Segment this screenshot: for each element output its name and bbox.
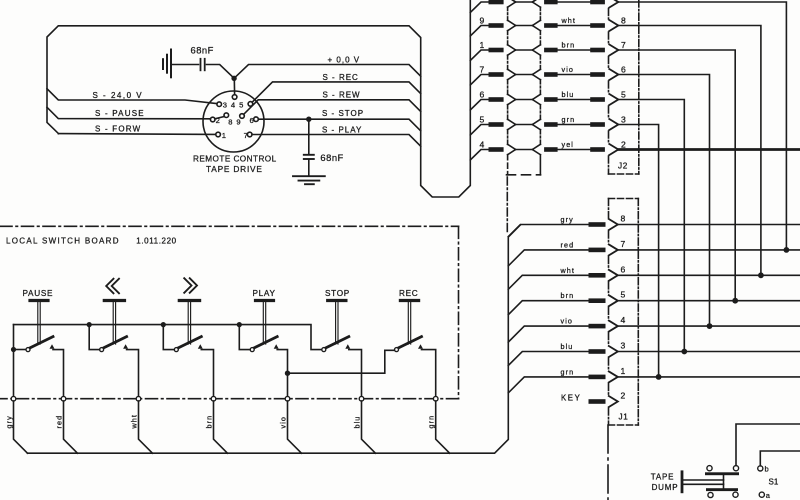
svg-text:grn: grn [561,367,575,376]
pin lug [590,122,605,127]
J2 row wht: stub from bundle [470,26,488,37]
wire yel (thick) to edge [618,148,800,151]
wire S-REC [252,82,421,102]
svg-text:4: 4 [621,315,626,325]
twisted pair crossover [516,25,533,27]
pin lug [590,48,605,53]
svg-text:S - STOP: S - STOP [322,109,364,118]
pin lug [489,48,504,53]
connector socket chevron [609,396,618,407]
wire bus to pivot 3 [163,325,174,350]
wire J2 pin to vertical feeder [618,75,709,327]
pin lug [590,0,605,4]
connector socket chevron [609,144,618,155]
switch REC: button bar [400,299,418,302]
wire contact elbow down [422,350,436,397]
feedthrough red [61,396,66,401]
connector J1 boundary bottom [609,424,639,426]
wire J1 grn to edge [618,376,800,378]
pivot contact [395,348,399,352]
svg-text:5: 5 [480,115,485,125]
feedthrough grn [433,396,438,401]
node junction [681,349,687,355]
connector socket chevron [609,321,618,332]
connector socket chevron [609,94,618,105]
fast forward symbol >> [184,278,197,293]
wire J2 pin to vertical feeder [618,26,761,276]
pin 1 [216,132,221,137]
twisted pair lens chain [508,0,541,144]
pin 7 [247,132,252,137]
J1 row gry: stub from bundle [508,225,588,237]
switch lever [104,337,127,348]
wire S-FORW [58,133,215,136]
pin lug [544,122,558,127]
connector socket chevron [609,119,618,130]
wire pin8 to pin2 wire [215,117,225,119]
board boundary bottom edge with feedthroughs [0,398,459,400]
wire J1 blu to edge [618,351,800,353]
svg-text:vio: vio [562,65,575,74]
node junction [707,323,713,329]
pin lug [589,248,606,253]
feedthrough gry [11,396,16,401]
pin 8 [224,113,229,118]
wire vio down to bundle [288,401,302,453]
wire S-STOP [258,119,420,131]
wire contact elbow down [349,350,362,397]
contact arrow [123,344,128,349]
wire J1 wht to edge [618,274,800,276]
wire lug to lug [558,74,591,76]
connector socket chevron [609,0,618,8]
svg-text:vio: vio [278,416,287,429]
node junction [732,298,738,304]
wire PAUSE common vertical [13,325,15,397]
svg-text:6: 6 [621,65,626,75]
node junction +0V [231,76,236,81]
J2 row top: stub from bundle [470,2,488,13]
actuator shaft [113,302,115,344]
capacitor C2 68nF [304,155,314,159]
twisted pair crossover [516,49,533,51]
S1 contact a [759,492,764,497]
svg-text:1: 1 [480,40,485,50]
pin lug [590,97,605,102]
svg-text:6: 6 [621,264,626,274]
svg-text:7: 7 [480,65,485,75]
svg-text:blu: blu [352,416,361,429]
wire S-REW [244,100,421,115]
pin lug [590,147,605,152]
wire J2 pin to vertical feeder [618,125,658,377]
svg-text:brn: brn [561,291,575,300]
wire J1 gry to edge [618,224,800,226]
pin lug [589,273,606,278]
pin lug [544,72,558,77]
svg-text:brn: brn [204,415,213,429]
connector J2 mating face (dash-dot) [608,9,610,175]
svg-text:J2: J2 [618,162,628,171]
wire J2 pin to vertical feeder [618,100,684,352]
wire J2 pin to vertical feeder [618,2,786,250]
wire lug to lug [558,49,591,51]
ground (below C2) [293,176,325,184]
pivot contact [250,348,254,352]
svg-text:DUMP: DUMP [652,483,679,492]
S1 push rods [683,479,723,481]
wire lug to lug [558,124,591,126]
wire bus to pivot 4 [239,325,250,350]
pin 4 [232,95,237,100]
J2 row grn: stub from bundle [470,125,488,136]
svg-text:KEY: KEY [561,394,581,403]
S1 contact b [758,466,763,471]
wire capacitor to ground [308,160,310,176]
svg-text:S - REW: S - REW [323,91,361,100]
svg-text:6: 6 [250,116,254,125]
pin lug [590,23,605,28]
wire junction to capacitor C2 [308,119,310,153]
svg-text:wht: wht [560,266,576,275]
switch lever [179,337,202,348]
connector socket chevron [609,20,618,31]
twisted pair crossover [516,1,533,3]
svg-text:blu: blu [562,90,575,99]
switch S1 actuator bar [681,472,684,492]
wire contact elbow down [53,350,64,397]
svg-text:REMOTE CONTROL: REMOTE CONTROL [193,155,277,164]
svg-text:68nF: 68nF [191,45,214,56]
svg-text:2: 2 [621,391,626,401]
wire contact elbow down [201,350,213,397]
connector J1 boundary right [637,199,639,426]
svg-text:J1: J1 [619,413,629,422]
twisted pair crossover [516,149,533,151]
pin 6 [254,117,259,122]
wire ground to capacitor [172,64,199,66]
pin lug [489,72,504,77]
wire +0,0V [234,65,421,79]
svg-text:wht: wht [561,16,577,25]
wire bus to pivot 2 [89,325,99,350]
svg-text:vio: vio [561,317,574,326]
wire red down to bundle [64,401,78,453]
pin lug [589,298,606,303]
J2 row vio: stub from bundle [470,75,488,86]
wire pivot link PAUSE [14,349,27,351]
twisted pair tail below yel row [507,155,509,175]
svg-text:red: red [561,240,575,249]
node junction [784,247,790,253]
pin lug [489,0,504,4]
svg-text:STOP: STOP [325,289,350,298]
svg-text:S - REC: S - REC [323,73,359,82]
svg-text:S - PLAY: S - PLAY [322,126,362,135]
pivot contact [174,348,178,352]
wire lug to lug [558,1,591,3]
wire J1 brn to edge [618,300,800,302]
wire lug to lug [558,99,591,101]
connector J1 boundary top [609,198,639,200]
svg-text:S1: S1 [769,478,779,487]
S1 lower bridge [706,488,738,491]
S1 upper bridge [705,472,739,475]
switch PAUSE: button bar [30,299,48,302]
node bus dot switch 2 [87,322,92,327]
pin 3 [217,102,222,107]
node junction on PLAY contact wire [285,371,290,376]
node junction S-STOP / C2 [306,117,311,122]
wire REC pivot feed from PLAY contact [288,350,395,373]
connector socket chevron [609,295,618,306]
contact arrow [198,344,203,349]
pin lug [489,97,504,102]
board boundary (dash-dot) top edge [0,225,459,227]
connector socket chevron [609,244,618,255]
J2 row blu: stub from bundle [470,100,488,111]
connector socket chevron [609,346,618,357]
svg-text:wht: wht [129,414,138,430]
svg-text:gry: gry [561,215,574,224]
svg-text:S - FORW: S - FORW [95,125,141,134]
wire from S1 contact b [760,451,800,466]
connector socket chevron [609,219,618,230]
svg-text:PAUSE: PAUSE [23,289,54,298]
pin lug [544,97,558,102]
svg-text:8: 8 [621,214,626,224]
svg-text:TAPE: TAPE [651,473,675,482]
pin lug [589,349,606,354]
J1 row brn: stub from bundle [508,301,588,315]
wire blu down to bundle [362,401,376,453]
wire grn down to bundle [436,401,450,453]
svg-text:1: 1 [222,131,226,140]
feedthrough blu [359,396,364,401]
pin 9 [240,114,245,119]
pin lug [489,147,504,152]
pin lug [544,0,558,4]
pin lug [544,147,558,152]
svg-text:3: 3 [621,341,626,351]
board boundary continuation below J1 [607,425,609,500]
contact arrow [274,344,279,349]
svg-text:LOCAL SWITCH BOARD: LOCAL SWITCH BOARD [6,237,120,246]
svg-text:brn: brn [562,41,576,50]
node bus dot switch 3 [161,322,166,327]
wire lug to lug [558,149,591,151]
connector socket chevron [609,371,618,382]
svg-text:1.011.220: 1.011.220 [136,237,176,246]
svg-text:S - PAUSE: S - PAUSE [95,109,145,118]
svg-text:5: 5 [621,90,626,100]
wire J2 pin to vertical feeder [618,50,735,301]
switch ff: button bar [179,299,199,302]
actuator shaft [408,302,410,344]
actuator shaft [188,302,190,344]
feedthrough wht [136,396,141,401]
switch lever [326,337,349,348]
switch PLAY: button bar [256,299,274,302]
svg-text:68nF: 68nF [320,152,343,163]
connector DIN remote control: outer circle [203,91,264,152]
capacitor C1 68nF [201,59,205,71]
connector J1 mating face (dash-dot) [608,199,610,426]
svg-text:3: 3 [621,115,626,125]
svg-text:REC: REC [399,289,418,298]
actuator shaft [336,302,338,344]
node bus dot switch 4 (PLAY) [237,322,242,327]
wire lug to lug [558,25,591,27]
svg-text:4: 4 [480,140,485,150]
pivot contact [100,348,104,352]
S1 link [723,475,725,490]
wire bundle outline: left vertical, top rail, right vertical, bottom U-bend up to connector column [47,0,470,197]
node junction [758,272,764,278]
ground (top left) [163,50,171,78]
switch lever [399,337,422,348]
wire wht down to bundle [139,401,153,453]
wire S-PLAY [252,135,421,147]
node junction [656,374,662,380]
svg-text:9: 9 [480,16,485,26]
connector socket chevron [609,45,618,56]
node PAUSE pivot junction [11,347,16,352]
rewind symbol << [106,279,119,294]
svg-text:a: a [766,491,771,500]
wire from S1 upper contact [736,424,800,466]
wire contact elbow down [127,350,139,397]
wire J1 red to edge [618,249,800,251]
feedthrough circles and tails [4,396,449,453]
pin lug [589,324,606,329]
J1 row vio: stub from bundle [508,326,588,342]
contact arrow [50,344,55,349]
actuator shaft [263,302,265,344]
feedthrough vio [285,396,290,401]
board boundary right edge [458,226,460,398]
twisted pair crossover [516,124,533,126]
svg-text:+ 0,0 V: + 0,0 V [328,55,361,64]
pin lug [544,23,558,28]
connector J2 boundary bottom [609,173,639,175]
svg-text:5: 5 [621,290,626,300]
contact arrow [345,344,350,349]
svg-text:PLAY: PLAY [253,289,276,298]
wire brn down to bundle [214,401,228,453]
svg-text:2: 2 [621,140,626,150]
twisted pair crossover [516,99,533,101]
pin lug [489,122,504,127]
svg-text:7: 7 [621,239,626,249]
shield dash-dot down to J1 bundle [506,177,508,232]
svg-text:1: 1 [621,366,626,376]
bottom bundle bus of switch board [28,225,521,453]
pin 2 [210,117,215,122]
feedthrough brn [211,396,216,401]
svg-text:8 9: 8 9 [228,117,241,126]
J1 row red: stub from bundle [508,250,588,266]
pin lug [590,72,605,77]
svg-text:grn: grn [562,115,576,124]
pin lug [544,48,558,53]
svg-text:3 4 5: 3 4 5 [223,101,244,110]
svg-text:TAPE DRIVE: TAPE DRIVE [206,164,263,174]
contact arrow [418,344,423,349]
pin lug [489,23,504,28]
wire S-24,0V [47,89,217,104]
wire gry down to bundle [14,401,28,453]
J1 row wht: stub from bundle [508,275,588,289]
wire junction to pin 4 [233,78,235,94]
svg-text:b: b [765,465,769,474]
wire J1 vio to edge [618,325,800,327]
svg-text:8: 8 [621,16,626,26]
pin lug [589,375,606,380]
J2 row brn: stub from bundle [470,50,488,61]
svg-text:S - 24,0 V: S - 24,0 V [93,91,144,100]
svg-text:2: 2 [216,116,220,125]
S1 contact circles [707,466,712,471]
pin lug [589,222,606,227]
svg-text:yel: yel [562,140,575,149]
switch rew: button bar [104,299,124,302]
switch lever [254,337,277,348]
J2 row yel: stub from bundle [470,150,488,161]
svg-text:7: 7 [244,131,248,140]
svg-text:6: 6 [480,90,485,100]
pin 5 [248,102,253,107]
svg-text:gry: gry [4,415,13,428]
connector socket chevron [609,270,618,281]
svg-text:7: 7 [621,40,626,50]
pivot contact [322,348,326,352]
actuator shaft [38,302,40,344]
twisted pair crossover [516,74,533,76]
J1 row grn: stub from bundle [508,377,588,393]
wire S-PAUSE [47,107,210,119]
svg-text:red: red [54,415,63,429]
connector J2 boundary right [638,0,640,174]
svg-text:blu: blu [561,342,574,351]
connector socket chevron [609,69,618,80]
switch bus (top) [14,325,322,350]
svg-text:grn: grn [427,415,436,429]
J1 row blu: stub from bundle [508,352,588,366]
pivot contact [26,348,30,352]
switch STOP: button bar [328,299,346,302]
switch lever [30,337,53,348]
wire contact elbow down [277,350,287,397]
pin lug [589,399,606,404]
wire capacitor to junction [207,65,235,79]
